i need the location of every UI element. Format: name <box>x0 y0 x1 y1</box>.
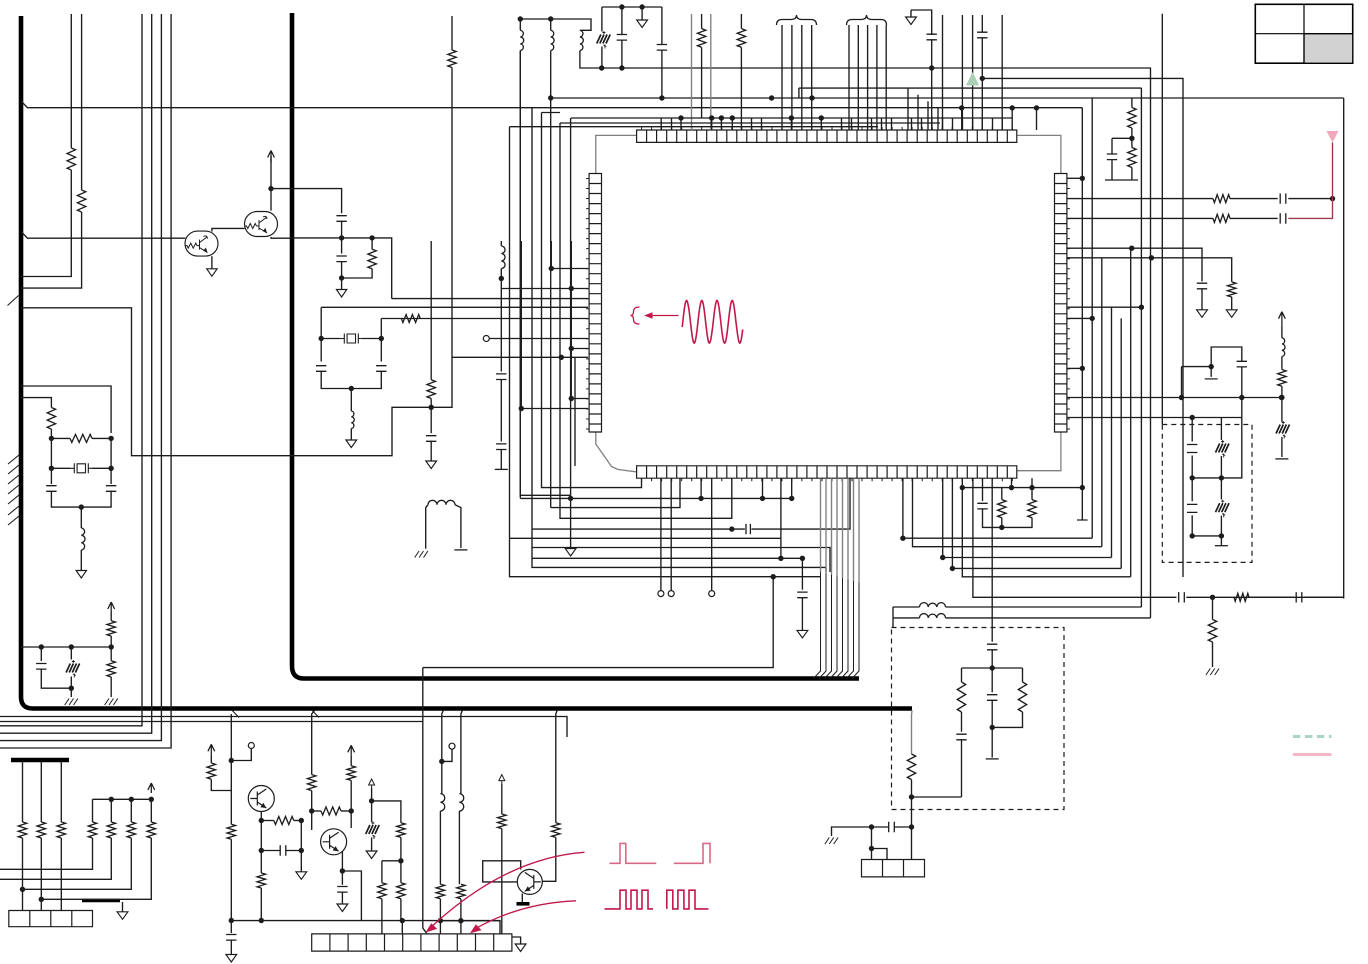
wire <box>60 838 62 911</box>
supply arrow <box>148 783 155 793</box>
wire <box>521 894 523 904</box>
polarized cap C_w2 <box>1216 444 1230 453</box>
wire <box>80 550 82 571</box>
capacitor C_s3 <box>1179 592 1185 602</box>
wire <box>1220 456 1222 478</box>
junction <box>369 235 374 240</box>
resistor R_n1 <box>448 50 456 68</box>
polarized cap C_m2 <box>66 664 80 673</box>
wire net H98 <box>551 97 1344 99</box>
junction <box>1179 395 1184 400</box>
junction <box>458 918 463 923</box>
wire brace2 line 3 <box>867 25 869 130</box>
capacitor C_b2 <box>496 374 506 380</box>
resistor R_c23 <box>127 822 135 838</box>
capacitor C_t1 <box>280 845 286 855</box>
wire <box>1231 297 1233 310</box>
wire <box>601 7 603 32</box>
dashed module box 1 <box>892 628 1065 810</box>
junction <box>1090 316 1095 321</box>
wire <box>455 505 461 548</box>
wire <box>320 307 322 338</box>
wire drop <box>461 710 462 793</box>
wire <box>500 449 502 469</box>
wire pin stub <box>711 118 713 130</box>
wire <box>311 791 313 830</box>
wire pin stub <box>891 118 893 130</box>
wire <box>981 15 983 33</box>
wire <box>92 467 111 469</box>
wire <box>341 261 343 278</box>
wire <box>1230 217 1278 219</box>
wire <box>382 860 401 862</box>
junction <box>800 556 805 561</box>
wire <box>341 851 343 885</box>
resistor R_t2 <box>227 824 235 839</box>
wire busline y495 <box>520 494 570 496</box>
wire <box>550 241 552 269</box>
junction <box>1190 533 1195 538</box>
wire <box>1001 488 1003 500</box>
Q6 emitter bar <box>517 902 530 906</box>
wire <box>1212 642 1214 667</box>
wire L2 down <box>550 51 552 508</box>
junction <box>1139 305 1144 310</box>
ground <box>366 851 377 859</box>
wire <box>1031 478 1033 499</box>
wire bundle L5 (bus line y507) <box>551 478 680 507</box>
resistor R_c22 <box>107 822 115 838</box>
wire bundle L6 (bus line y518) <box>560 123 732 518</box>
capacitor C_v3 <box>987 695 997 701</box>
wire <box>371 838 373 852</box>
wire box2 feed <box>1241 398 1243 418</box>
wire bottom rail <box>231 921 500 934</box>
bus fan-in wires at thick line end <box>814 572 860 679</box>
transistor Q1 (digital) <box>185 231 218 256</box>
wire <box>41 838 151 899</box>
termination bar <box>1205 378 1218 380</box>
resistor R_r3 <box>1228 282 1236 297</box>
wire <box>1210 367 1212 377</box>
wire <box>1131 98 1133 108</box>
wire <box>701 47 703 118</box>
wire <box>460 921 462 934</box>
junction <box>1080 176 1085 181</box>
wire net H238 right <box>292 238 392 299</box>
wire stepped net from bus to R_b1 <box>21 308 431 456</box>
junction <box>619 65 624 70</box>
wire <box>231 749 251 761</box>
wire <box>1220 516 1222 546</box>
brace group 1 <box>777 15 817 25</box>
junction <box>259 818 264 823</box>
wire <box>110 438 112 484</box>
wire <box>501 829 503 934</box>
wire <box>570 241 572 289</box>
ground <box>797 630 808 638</box>
wire pin drop to bus <box>842 478 844 578</box>
wire <box>320 339 322 362</box>
thick bus bar stub (small) <box>82 899 120 903</box>
junction <box>129 797 134 802</box>
wire <box>50 429 52 484</box>
wire net H118 <box>571 117 1012 119</box>
wire pin stub <box>1067 177 1082 179</box>
wire <box>439 899 441 934</box>
wire pin stub <box>700 478 702 498</box>
junction <box>869 846 874 851</box>
wire <box>442 749 452 761</box>
wire <box>381 861 383 883</box>
wire bundle extra <box>1161 14 1163 425</box>
wire busline yB557 <box>943 478 1112 557</box>
wire gray drop b <box>710 14 712 130</box>
junction <box>20 887 25 892</box>
wire <box>489 338 588 340</box>
wire drop <box>442 710 444 793</box>
supply arrow <box>208 744 215 754</box>
wire net H647 <box>21 646 111 648</box>
junction <box>1010 105 1015 110</box>
junction <box>149 797 154 802</box>
junction <box>349 386 354 391</box>
open terminal (mid) <box>483 336 489 342</box>
wire <box>893 617 920 619</box>
junction <box>69 686 74 691</box>
wire <box>23 838 132 889</box>
wire <box>294 820 302 822</box>
capacitor C_u1 <box>337 887 347 893</box>
capacitor C_s4 <box>1296 592 1302 602</box>
wire <box>1191 418 1193 442</box>
wire <box>22 838 24 911</box>
junction <box>439 759 444 764</box>
wire pin stub <box>731 118 733 130</box>
resistor R_c21 <box>88 822 96 838</box>
wire pin stub y248 to C_r2 <box>1067 248 1202 281</box>
inductor L_g1 <box>428 500 455 505</box>
junction <box>1129 136 1134 141</box>
wire pin stub <box>881 118 883 130</box>
open terminal <box>449 743 455 749</box>
wire net H318 <box>381 318 588 320</box>
resistor R_d4 <box>552 823 560 838</box>
junction <box>548 95 553 100</box>
resistor R_r5 <box>1213 195 1230 203</box>
junction <box>568 496 573 501</box>
wire <box>211 779 231 790</box>
signal ground <box>1206 669 1219 676</box>
wire <box>371 788 373 822</box>
wire <box>342 871 361 921</box>
resistor R_d3 <box>498 814 506 829</box>
junction <box>69 644 74 649</box>
wire <box>261 850 280 852</box>
wire brace2 line 5 <box>885 25 887 130</box>
red waveform pulse-train B <box>667 890 709 909</box>
resistor R_u5 <box>378 883 386 899</box>
resistor R_p1 <box>697 29 705 48</box>
junction <box>229 918 234 923</box>
junction <box>518 16 523 21</box>
inductor L_b1 <box>501 246 505 269</box>
junction <box>730 115 735 120</box>
wire bus line y488 right <box>962 487 1082 489</box>
capacitor C_b1 <box>426 436 436 442</box>
wire pin stub y318 <box>1067 317 1092 319</box>
wire pin stub <box>720 118 722 130</box>
junction <box>268 186 273 191</box>
wire Q1-Q2 link <box>212 228 245 231</box>
wire <box>1112 137 1132 139</box>
wire <box>961 712 963 732</box>
wire coilline 2 <box>892 618 894 628</box>
junction <box>1330 196 1335 201</box>
wire <box>1011 108 1013 130</box>
junction <box>340 868 345 873</box>
junction <box>789 496 794 501</box>
wire <box>1001 15 1003 130</box>
inductor L_s1 <box>920 603 946 607</box>
wire <box>425 508 427 549</box>
junction <box>39 644 44 649</box>
wire <box>780 478 782 538</box>
resistor R_x1 <box>47 408 55 430</box>
wire pin stub <box>942 118 944 130</box>
wire pin stub <box>961 118 963 130</box>
wire <box>1182 366 1212 368</box>
green signal marker triangle <box>966 72 979 86</box>
capacitor C_r5 <box>1280 193 1286 203</box>
wire <box>81 14 83 190</box>
wire <box>41 669 71 689</box>
wire brace2 line 2 <box>857 25 859 130</box>
junction <box>549 266 554 271</box>
capacitor C_w1 <box>1187 445 1197 453</box>
wire <box>1131 168 1133 181</box>
red brace callout <box>631 307 640 324</box>
wire busline y558 <box>532 557 802 559</box>
resistor R_v2 <box>1018 682 1026 712</box>
wire right border <box>1343 98 1345 599</box>
wire <box>21 170 71 277</box>
wire long vertical v2 <box>0 14 152 733</box>
pink marker triangle <box>1327 131 1339 143</box>
wire brace2 line 4 <box>876 25 878 130</box>
red callout arrow <box>651 315 679 317</box>
wire <box>1220 478 1222 500</box>
wire <box>962 667 1023 669</box>
wire corner drop <box>937 108 939 130</box>
wire net H288 <box>501 288 588 290</box>
wire net H68 main <box>580 51 943 69</box>
wire long vertical v4 <box>0 14 171 748</box>
wire net H123 <box>560 122 940 124</box>
junction <box>108 436 113 441</box>
wire <box>321 371 381 389</box>
open terminal <box>668 591 674 597</box>
wire <box>1111 159 1113 180</box>
wire <box>961 15 963 130</box>
wire <box>872 849 888 860</box>
thick bus line (left vertical, bends right at bottom) <box>21 16 912 709</box>
wire <box>92 799 94 822</box>
bus entry ticks <box>8 455 19 525</box>
wire <box>1186 596 1343 598</box>
wire <box>380 319 382 339</box>
red leader curve 1 <box>430 852 585 928</box>
bus entry tick <box>8 296 19 306</box>
wire bundle right x=1111.5 <box>1111 307 1113 557</box>
junction <box>229 758 234 763</box>
junction <box>1080 366 1085 371</box>
wire pin drop to bus <box>825 478 827 573</box>
ground <box>1226 310 1237 318</box>
wire corner drop <box>907 88 909 130</box>
wire <box>1191 478 1193 501</box>
junction <box>990 725 995 730</box>
capacitor C_s1 <box>746 524 750 534</box>
wire <box>372 801 401 823</box>
resistor R_tl2 <box>77 190 85 212</box>
signal ground <box>105 699 118 706</box>
resistor R_r1 <box>1128 108 1136 129</box>
wire box2 top node <box>1192 417 1242 419</box>
wire <box>991 649 993 692</box>
wire step link <box>431 357 452 407</box>
connector J1 <box>9 911 93 927</box>
wire long vertical v1 <box>0 14 142 726</box>
capacitor C_m1 <box>36 664 46 670</box>
junction <box>769 95 774 100</box>
wire highlighted (dark red) <box>1288 199 1332 219</box>
wire pin stub y368 <box>1067 367 1082 369</box>
ground <box>117 912 128 920</box>
wire <box>992 712 1022 727</box>
wire pin stub <box>791 478 793 498</box>
junction <box>1239 395 1244 400</box>
junction <box>299 848 304 853</box>
wire <box>501 784 503 814</box>
wire <box>912 796 962 798</box>
wire <box>261 820 274 822</box>
wire bundle L1 <box>510 127 821 577</box>
wire <box>570 289 572 399</box>
inductor L_s2 <box>920 614 946 618</box>
wire busline yB577 <box>962 478 1130 577</box>
wire net H307 <box>321 306 588 308</box>
junction <box>569 346 574 351</box>
wire pin stub <box>871 118 873 130</box>
junction <box>369 798 374 803</box>
wire pin drop center <box>991 478 993 642</box>
wire <box>430 241 432 380</box>
junction <box>719 115 724 120</box>
junction <box>569 396 574 401</box>
wire <box>285 850 301 852</box>
transistor Q2 (digital) <box>245 212 278 237</box>
supply arrow (open) <box>369 779 375 788</box>
capacitor C_x3 <box>316 366 326 372</box>
junction <box>999 525 1004 530</box>
wire <box>1001 518 1003 528</box>
termination bar <box>1275 458 1288 460</box>
wire <box>442 920 500 922</box>
capacitor C_b3 <box>496 444 506 450</box>
termination bar <box>1105 179 1138 181</box>
wire <box>1022 668 1024 682</box>
wire <box>542 837 556 881</box>
resistor R_t4 <box>257 873 265 888</box>
wire <box>341 278 343 290</box>
junction <box>400 918 405 923</box>
inductor L_d2 <box>459 794 463 811</box>
connector J2 (bottom middle) <box>312 934 512 951</box>
junction <box>1210 595 1215 600</box>
capacitor C_a1 <box>336 216 346 222</box>
wire <box>110 611 112 621</box>
wire pin stub <box>751 118 753 130</box>
wire busline yB538 <box>903 478 1092 538</box>
capacitor C_s2 <box>797 592 807 598</box>
wire top rail <box>602 6 662 8</box>
wire net y664 <box>664 577 773 668</box>
wire net H408 <box>521 408 588 410</box>
wire <box>512 937 521 944</box>
wire <box>520 241 522 269</box>
wire net H67 right <box>943 67 1151 69</box>
junction <box>809 95 814 100</box>
wire pink signal drop <box>1332 143 1334 199</box>
junction <box>959 105 964 110</box>
wire net H198 <box>1067 198 1213 200</box>
resistor R_c11 <box>18 822 26 838</box>
wire brace1 line 2 <box>791 25 793 130</box>
wire <box>621 7 623 35</box>
capacitor C_n1 <box>617 35 627 41</box>
wire bundle R1 <box>1081 108 1083 520</box>
capacitor C_v1 <box>987 644 997 650</box>
bus drop tick <box>232 710 319 717</box>
junction <box>1009 485 1014 490</box>
junction <box>1209 364 1214 369</box>
wire <box>51 491 111 507</box>
wire pin stub <box>761 118 763 130</box>
junction <box>398 858 403 863</box>
wire <box>798 88 800 98</box>
wire <box>1249 596 1294 598</box>
wire <box>341 238 343 254</box>
wire bundle right x=1092.2 <box>1091 98 1093 538</box>
resistor R_u1 <box>308 775 316 791</box>
junction <box>819 115 824 120</box>
resistor R_u2 <box>321 807 341 815</box>
thick bus bar stub (left, lower) <box>11 758 69 762</box>
junction <box>980 76 985 81</box>
wire <box>430 399 432 434</box>
wire net above thick bus <box>423 667 664 669</box>
ground (bundle) <box>565 549 576 557</box>
wire pin drop to bus <box>831 478 833 575</box>
wire bundle right x=1150.5 <box>1150 68 1152 618</box>
wire box2 right side <box>1221 418 1241 478</box>
resistor R_b1 <box>427 380 435 399</box>
wire <box>500 241 502 246</box>
wire <box>911 10 932 35</box>
junction <box>569 286 574 291</box>
wire <box>381 899 383 934</box>
